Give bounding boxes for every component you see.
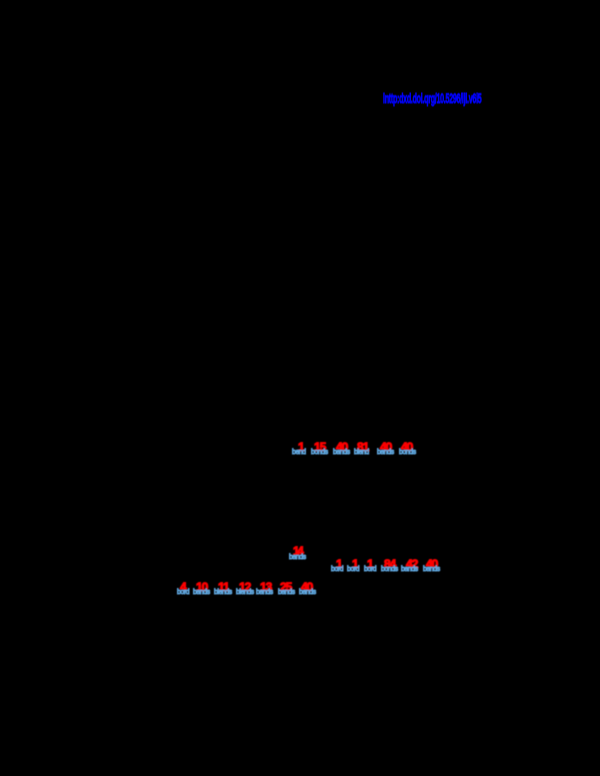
row3 item3 label (364, 567, 376, 573)
row1 item2 label (311, 450, 328, 456)
row4 item1 label (177, 590, 189, 596)
row3 item5 label (401, 567, 418, 573)
row3 item1 red 1 (336, 560, 342, 569)
row2 single red 14 (293, 548, 302, 557)
row1 item6 red 40 (401, 443, 412, 452)
row1 item3 red 40 (336, 443, 347, 452)
row4 item4 red 12 (239, 583, 250, 592)
row1 item5 red 40 (380, 443, 391, 452)
row3 item4 label (381, 567, 398, 573)
row4 item3 label (214, 590, 232, 596)
row1 item1 label (292, 450, 306, 456)
row4 item2 label (193, 590, 210, 596)
row1 item3 label (333, 450, 350, 456)
row1 item5 label (377, 450, 394, 456)
row1 item4 red 81 (357, 443, 368, 452)
row4 item6 label (278, 590, 295, 596)
row3 item3 red 1 (367, 560, 373, 569)
row4 item2 red 10 (196, 583, 207, 592)
row1 item2 red 15 (314, 443, 325, 452)
row3 item2 red 1 (352, 560, 358, 569)
row4 item3 red 11 (218, 583, 229, 592)
row2 single label (289, 555, 306, 561)
row4 item1 red 4 (180, 583, 186, 592)
row4 item4 label (236, 590, 254, 596)
row4 item7 label (299, 590, 316, 596)
row4 item5 red 13 (260, 583, 271, 592)
row3 item5 red 42 (406, 560, 417, 569)
row4 item6 red 25 (280, 583, 291, 592)
row4 item7 red 40 (301, 583, 312, 592)
row4 item5 label (256, 590, 273, 596)
row3 item4 red 84 (384, 560, 395, 569)
hyperlink (blue) (383, 90, 481, 106)
row1 item6 label (399, 450, 416, 456)
row3 item1 label (331, 567, 343, 573)
row1 item1 red 1 (298, 443, 304, 452)
row3 item6 red 40 (426, 560, 437, 569)
row3 item6 label (423, 567, 440, 573)
row3 item2 label (347, 567, 359, 573)
row1 item4 label (354, 450, 369, 456)
